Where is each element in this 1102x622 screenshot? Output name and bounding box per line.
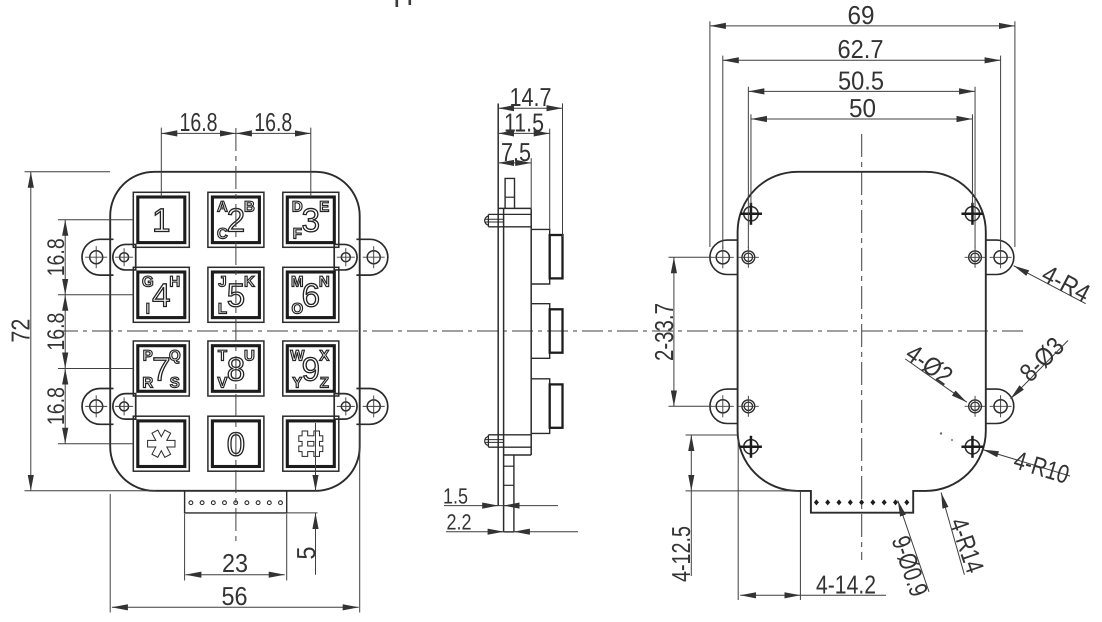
svg-text:4: 4 [152,277,170,314]
svg-text:1.5: 1.5 [443,483,468,508]
svg-text:5: 5 [291,547,321,560]
front connector pin holes 9x [189,501,282,505]
back view body outline [738,172,986,513]
dim 16.8 column spacing left [161,107,236,137]
clipped text remnant top [396,0,412,7]
back corner stud bottom-right [961,436,983,458]
dim 16.8 column spacing right [236,107,311,137]
callout 4-R4 [1014,259,1096,309]
svg-text:16.8: 16.8 [180,107,218,137]
side keycap 1 [531,229,562,284]
svg-text:W: W [290,347,305,364]
side keycap 3 [531,379,562,434]
dim 69 [710,0,1015,247]
svg-text:1: 1 [152,202,170,239]
speck artifacts [940,432,953,441]
svg-text:2-33.7: 2-33.7 [649,303,679,361]
key # [283,416,339,471]
key 9 [283,341,339,396]
svg-text:56: 56 [222,581,248,611]
horizontal center axis line (all views) [57,330,1026,332]
side bottom pin strip [504,455,514,532]
svg-text:4-14.2: 4-14.2 [816,569,876,599]
dim 4-14.2 [738,436,886,600]
svg-text:M: M [291,274,304,291]
callout 8-&#216;3 [1011,331,1070,399]
front mounting ear bottom-left [82,389,136,425]
svg-text:D: D [292,199,303,216]
front mounting ear bottom-right [334,389,388,425]
side view main plate [498,104,531,532]
side ear bottom [485,435,532,447]
svg-text:R: R [142,374,153,391]
callout 9-&#216;0.9 [886,501,935,601]
dim 16.8 row spacing chain [43,220,133,444]
back corner stud bottom-left [740,436,762,458]
front connector tab [185,491,287,513]
key 5 [208,267,264,322]
svg-text:72: 72 [6,319,36,343]
svg-text:Z: Z [320,374,329,391]
back corner stud top-left [740,203,762,225]
svg-text:Y: Y [292,374,302,391]
side top pin [505,178,514,208]
front view body outline [110,172,360,491]
key 2 [208,192,264,247]
svg-text:G: G [142,274,154,291]
svg-text:16.8: 16.8 [254,107,292,137]
svg-text:V: V [217,374,227,391]
front mounting ear top-right [334,239,388,275]
svg-text:S: S [170,374,180,391]
key 4 [133,267,189,322]
svg-text:J: J [218,274,226,291]
dim 4-12.5 [666,435,798,582]
back connector pins 9x [814,499,909,505]
svg-text:U: U [244,347,255,364]
dim 72 overall height [6,172,156,491]
key 6 [283,267,339,322]
dim 2.2 pin width [446,509,578,534]
svg-text:A: A [217,199,228,216]
back ear bottom-right [965,389,1014,423]
dim 7.5 [498,137,531,208]
svg-text:4-12.5: 4-12.5 [666,526,696,582]
front mounting ear top-left [82,239,136,275]
back ear top-right [965,240,1014,274]
svg-text:23: 23 [222,548,248,578]
key 1 [133,192,189,247]
dim 5 tab depth [287,423,321,575]
svg-text:N: N [319,274,330,291]
svg-text:3: 3 [302,202,320,239]
callout 4-R10 [983,445,1073,490]
back corner stud top-right [961,203,983,225]
svg-text:16.8: 16.8 [43,387,70,425]
key 8 [208,341,264,396]
back vertical centerline [861,134,863,560]
dim 62.7 [723,34,1001,248]
back ear top-left [710,240,759,274]
dim 2-33.7 ear spacing [649,257,712,406]
svg-text:P: P [143,347,153,364]
dim 14.7 [498,82,562,237]
svg-text:11.5: 11.5 [504,107,544,137]
svg-text:I: I [146,301,150,318]
svg-text:7.5: 7.5 [501,137,531,167]
key 3 [283,192,339,247]
svg-text:E: E [319,199,329,216]
dim 1.5 plate thickness [443,483,558,508]
front vertical centerline column 2 [235,128,237,544]
svg-text:50.5: 50.5 [838,65,884,95]
key 7 [133,341,189,396]
svg-text:L: L [218,301,227,318]
dim 50 [751,93,973,205]
dim 50.5 [748,65,975,248]
dim 23 connector width [185,514,287,581]
key * [133,416,189,471]
svg-text:16.8: 16.8 [43,238,70,276]
side keycap 2 [531,304,562,359]
svg-text:62.7: 62.7 [838,34,884,64]
svg-text:50: 50 [849,93,876,123]
key 0 [208,416,264,471]
dim 11.5 [498,107,550,231]
svg-text:H: H [169,274,180,291]
callout 4-R14 [941,493,990,577]
svg-text:X: X [319,347,329,364]
svg-text:6: 6 [302,277,320,314]
svg-text:O: O [291,301,303,318]
back ear bottom-left [710,389,759,423]
extension lines columns [161,128,310,197]
side ear top [485,214,532,226]
svg-text:F: F [293,226,302,243]
svg-text:16.8: 16.8 [43,313,70,351]
dim 56 overall width [110,425,360,613]
svg-text:T: T [218,347,227,364]
svg-text:B: B [244,199,255,216]
svg-text:Q: Q [169,347,181,364]
svg-text:69: 69 [848,0,875,30]
svg-text:7: 7 [152,350,170,387]
svg-text:K: K [244,274,255,291]
svg-text:C: C [217,226,228,243]
callout 4-&#216;2 [900,338,966,402]
svg-text:2.2: 2.2 [447,509,472,534]
